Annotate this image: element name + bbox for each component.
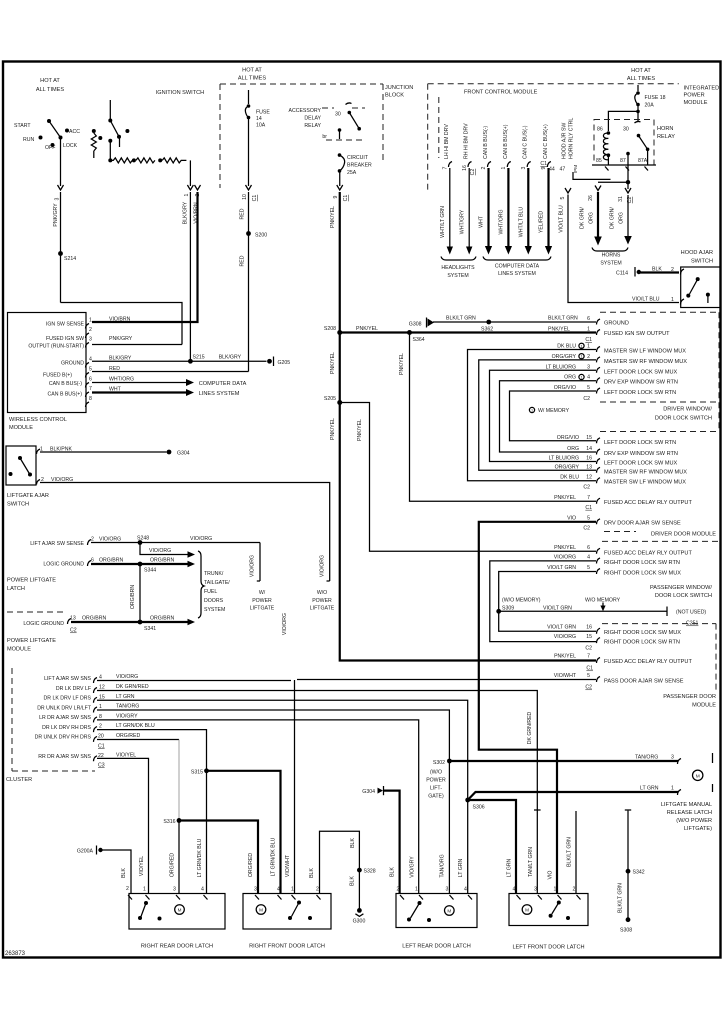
svg-text:ALL TIMES: ALL TIMES (36, 87, 65, 93)
wire VIO drv door ajar sw sense (479, 522, 596, 894)
svg-text:LT GRN/DK BLU: LT GRN/DK BLU (197, 838, 203, 877)
splice S248 (138, 540, 143, 545)
svg-text:M: M (178, 908, 182, 913)
svg-text:INTEGRATED: INTEGRATED (684, 86, 720, 92)
svg-text:S205: S205 (324, 396, 336, 402)
liftgate ajar switch pin 2 wire VIO/ORG (37, 480, 41, 485)
svg-text:DK GRN/RED: DK GRN/RED (116, 684, 149, 690)
svg-text:20A: 20A (645, 103, 655, 109)
svg-text:CAN C BUS(+): CAN C BUS(+) (543, 124, 549, 159)
svg-text:263873: 263873 (5, 951, 26, 957)
svg-text:BREAKER: BREAKER (347, 163, 372, 169)
wire VIO/YEL to right rear latch pin 1 (97, 758, 149, 893)
svg-text:4: 4 (587, 375, 590, 381)
svg-text:BLK: BLK (390, 867, 396, 877)
svg-text:LEFT DOOR LOCK SW MUX: LEFT DOOR LOCK SW MUX (604, 461, 678, 467)
wire WHT/LT GRN to headlights (449, 168, 451, 248)
wire WHT (CAN B-) (487, 168, 489, 247)
svg-text:ALL TIMES: ALL TIMES (627, 76, 656, 82)
splice S215 (188, 359, 193, 364)
svg-text:VIO/WHT: VIO/WHT (554, 673, 577, 679)
svg-text:14: 14 (256, 116, 262, 122)
svg-text:LR DR AJAR SW SNS: LR DR AJAR SW SNS (39, 715, 91, 721)
svg-text:C2: C2 (583, 526, 590, 532)
svg-text:FUSED ACC DELAY RLY OUTPUT: FUSED ACC DELAY RLY OUTPUT (604, 550, 692, 556)
wire DK GRN/ORG horn 2 (625, 188, 631, 193)
svg-text:ORG: ORG (619, 212, 625, 224)
wire PNK/YEL S208 to S364 and driver switch (340, 331, 596, 333)
svg-text:DOOR LOCK SWITCH: DOOR LOCK SWITCH (655, 593, 712, 599)
svg-text:DK GRN/: DK GRN/ (580, 207, 586, 229)
svg-text:10: 10 (242, 194, 248, 200)
splice S341 (138, 620, 143, 625)
IPM connector ticks (605, 167, 609, 171)
svg-text:VIO/LT GRN: VIO/LT GRN (547, 565, 576, 571)
svg-text:30: 30 (623, 127, 629, 133)
svg-text:RELAY: RELAY (657, 134, 675, 140)
svg-text:VIO/ORG: VIO/ORG (250, 555, 256, 577)
svg-text:26: 26 (588, 195, 594, 201)
svg-text:DOOR LOCK SWITCH: DOOR LOCK SWITCH (655, 416, 712, 422)
wire YEL/RED (CAN C+) (547, 168, 549, 247)
svg-text:FUSED B(+): FUSED B(+) (43, 373, 72, 379)
svg-text:FUSED ACC DELAY RLY OUTPUT: FUSED ACC DELAY RLY OUTPUT (604, 500, 692, 506)
svg-text:PNK/YEL: PNK/YEL (330, 418, 336, 440)
svg-text:BLK: BLK (652, 267, 662, 273)
svg-text:16: 16 (462, 165, 468, 171)
wire ORG/RED to S316 and right rear latch pin 3 (97, 739, 179, 741)
svg-text:14: 14 (586, 446, 592, 452)
svg-text:CIRCUIT: CIRCUIT (347, 155, 369, 161)
svg-text:BLK: BLK (350, 876, 356, 886)
svg-text:OUTPUT (RUN-START): OUTPUT (RUN-START) (28, 344, 84, 350)
svg-text:HORN RLY CTRL: HORN RLY CTRL (569, 118, 575, 159)
wire PNK/YEL S364 to driver door module pin7 (410, 333, 597, 502)
pin bracket FUSED IGN SW OUTPUT row (597, 330, 601, 336)
svg-text:ACCESSORY: ACCESSORY (289, 108, 322, 114)
svg-text:G300: G300 (353, 919, 366, 925)
svg-text:FUSE 18: FUSE 18 (645, 95, 666, 101)
svg-text:CAN B BUS(-): CAN B BUS(-) (49, 381, 82, 387)
svg-text:3: 3 (55, 197, 61, 200)
svg-text:VIO/WHT: VIO/WHT (285, 854, 291, 877)
svg-text:VIO/ORG: VIO/ORG (190, 536, 212, 542)
svg-text:C114: C114 (616, 271, 628, 277)
wire VIO/ORG S248 arrow to trunk system (140, 543, 189, 555)
svg-text:47: 47 (560, 167, 566, 173)
svg-text:CAN C BUS(-): CAN C BUS(-) (523, 125, 529, 159)
svg-text:DRV DOOR AJAR SW SENSE: DRV DOOR AJAR SW SENSE (604, 520, 681, 526)
svg-text:START: START (14, 123, 31, 129)
svg-text:LOGIC GROUND: LOGIC GROUND (23, 621, 64, 627)
svg-text:S342: S342 (633, 870, 645, 876)
svg-text:12: 12 (586, 475, 592, 481)
svg-text:20: 20 (98, 733, 104, 739)
svg-text:RELAY: RELAY (304, 123, 321, 129)
svg-text:CAN B BUS(-): CAN B BUS(-) (483, 126, 489, 159)
svg-text:MODULE: MODULE (692, 703, 716, 709)
note W/ MEMORY (529, 407, 534, 412)
svg-text:LINES SYSTEM: LINES SYSTEM (498, 271, 536, 277)
svg-text:LINES SYSTEM: LINES SYSTEM (199, 391, 240, 397)
svg-text:LT GRN: LT GRN (640, 786, 659, 792)
left rear door latch box (396, 894, 477, 928)
svg-text:7: 7 (587, 495, 590, 501)
nested wire U4 ORG (500, 381, 597, 452)
resistive zigzag wire to ignition connector (110, 158, 132, 163)
wire PNK/GRY from ignition to S214 (60, 138, 62, 186)
svg-text:POWER LIFTGATE: POWER LIFTGATE (7, 578, 56, 584)
wire VIO/GRY to left rear latch pin 1 (97, 720, 419, 894)
svg-text:DRIVER WINDOW/: DRIVER WINDOW/ (663, 407, 712, 413)
svg-text:ORG/BRN: ORG/BRN (150, 558, 174, 564)
svg-text:86: 86 (597, 127, 603, 133)
passenger window switch loop outer VIO/ORG (490, 561, 596, 642)
svg-text:ALL TIMES: ALL TIMES (238, 76, 267, 82)
svg-text:2: 2 (573, 887, 576, 893)
svg-text:S215: S215 (193, 355, 205, 361)
svg-text:C2: C2 (583, 396, 590, 402)
svg-text:ORG/RED: ORG/RED (248, 853, 254, 877)
svg-text:LIFTGATE): LIFTGATE) (684, 826, 712, 832)
svg-text:COMPUTER DATA: COMPUTER DATA (495, 264, 540, 270)
liftgate ajar switch pin 1 wire BLK/PNK to G304 (37, 449, 41, 454)
svg-text:ORG/VIO: ORG/VIO (557, 435, 579, 441)
svg-text:TAN/ORG: TAN/ORG (635, 755, 658, 761)
svg-text:br: br (322, 134, 327, 140)
svg-text:GATE): GATE) (428, 794, 444, 800)
right front latch motor M (256, 905, 266, 915)
svg-text:VIO/LT GRN: VIO/LT GRN (543, 606, 572, 612)
svg-text:C2: C2 (585, 646, 592, 652)
svg-text:S362: S362 (481, 327, 493, 333)
wire WHT/GRY to headlights (468, 168, 470, 248)
svg-text:VIO/LT GRN: VIO/LT GRN (547, 625, 576, 631)
passenger window switch loop inner VIO/LT GRN (499, 572, 596, 632)
svg-text:PNK/YEL: PNK/YEL (548, 327, 570, 333)
nested wire U3 LT BLU/ORG (490, 370, 597, 461)
svg-text:2: 2 (99, 724, 102, 730)
splice S316 (177, 818, 182, 823)
svg-text:C2: C2 (470, 169, 476, 176)
svg-text:LIFT AJAR SW SNS: LIFT AJAR SW SNS (44, 676, 91, 682)
svg-text:ORG/BRN: ORG/BRN (99, 558, 123, 564)
svg-text:PNK/GRY: PNK/GRY (109, 336, 133, 342)
svg-text:RUN: RUN (23, 137, 34, 143)
svg-text:FUSE: FUSE (256, 110, 270, 116)
splice S362 (486, 320, 491, 325)
wire DK GRN/ORG horn 1 (595, 186, 601, 191)
dashed separator power liftgate module (7, 611, 66, 613)
splice S302 w/o power liftgate (447, 759, 452, 764)
svg-text:(NOT USED): (NOT USED) (676, 610, 706, 616)
svg-text:2: 2 (481, 166, 487, 169)
svg-text:ORG: ORG (567, 446, 579, 452)
svg-text:S341: S341 (144, 626, 156, 632)
wire VIO/LT BLU to hood ajar switch (565, 188, 571, 193)
cluster dashed boundary (11, 668, 13, 771)
driver window door lock switch dashed boundary (600, 311, 719, 313)
svg-text:W/ MEMORY: W/ MEMORY (538, 408, 570, 414)
svg-text:1: 1 (531, 409, 533, 413)
svg-text:DR LK DRV LF DRS: DR LK DRV LF DRS (44, 696, 92, 702)
svg-text:2: 2 (316, 887, 319, 893)
svg-text:7: 7 (89, 386, 92, 392)
svg-text:LT GRN/DK BLU: LT GRN/DK BLU (271, 837, 277, 876)
svg-text:1: 1 (501, 166, 507, 169)
wire LT GRN to S306 and left rear latch pin 4 (97, 700, 468, 893)
svg-text:12: 12 (99, 685, 105, 691)
svg-text:5: 5 (587, 673, 590, 679)
left front latch switch (557, 901, 561, 905)
svg-text:MODULE: MODULE (9, 425, 33, 431)
svg-text:WHT: WHT (479, 215, 485, 228)
horns system bracket (592, 248, 628, 252)
svg-text:RIGHT DOOR LOCK SW RTN: RIGHT DOOR LOCK SW RTN (604, 560, 680, 566)
svg-text:HOOD AJR SW: HOOD AJR SW (562, 123, 568, 159)
svg-text:6: 6 (91, 558, 94, 564)
ground G205 (267, 359, 272, 364)
svg-text:2: 2 (587, 354, 590, 360)
svg-text:C1: C1 (585, 337, 592, 343)
svg-text:1: 1 (580, 376, 582, 380)
horn relay switch (635, 121, 641, 123)
svg-text:WIRELESS CONTROL: WIRELESS CONTROL (9, 417, 67, 423)
svg-text:VIO/BRN: VIO/BRN (109, 317, 131, 323)
svg-text:25A: 25A (347, 170, 357, 176)
right rear latch motor M (175, 905, 185, 915)
svg-text:COMPUTER DATA: COMPUTER DATA (199, 381, 247, 387)
right front door latch box (243, 894, 331, 930)
svg-text:VIO/ORG: VIO/ORG (282, 613, 288, 635)
svg-text:S309: S309 (502, 606, 514, 612)
svg-text:LIFT-: LIFT- (430, 786, 442, 792)
svg-text:M: M (259, 908, 263, 913)
wire TAN/ORG S302 to liftgate release latch pin 3 (449, 760, 678, 762)
svg-text:C2: C2 (70, 628, 77, 634)
svg-text:LT GRN: LT GRN (458, 858, 464, 877)
svg-text:30: 30 (335, 112, 341, 118)
svg-text:(W/O: (W/O (430, 770, 442, 776)
svg-text:WHT/LT BLU: WHT/LT BLU (519, 207, 525, 238)
svg-text:VIO/YEL: VIO/YEL (116, 752, 136, 758)
liftgate ajar switch box (6, 446, 36, 485)
svg-text:4: 4 (99, 675, 102, 681)
svg-text:LEFT DOOR LOCK SW RTN: LEFT DOOR LOCK SW RTN (604, 440, 676, 446)
svg-text:LIFTGATE AJAR: LIFTGATE AJAR (7, 493, 49, 499)
svg-text:ORG: ORG (564, 375, 576, 381)
svg-text:SYSTEM: SYSTEM (600, 261, 621, 267)
svg-text:RIGHT DOOR LOCK SW MUX: RIGHT DOOR LOCK SW MUX (604, 571, 681, 577)
wire BLK/LT GRN ground row (433, 321, 596, 323)
svg-text:FUSED IGN SW: FUSED IGN SW (46, 336, 84, 342)
svg-text:1: 1 (99, 704, 102, 710)
svg-text:VIO: VIO (548, 871, 554, 880)
svg-text:LT BLU/ORG: LT BLU/ORG (549, 456, 579, 462)
splice S306 (465, 798, 470, 803)
svg-text:1: 1 (580, 344, 582, 348)
splice S214 (58, 251, 63, 256)
wire LT GRN S306 to liftgate release latch pin 1 (468, 792, 678, 800)
svg-text:VIO/ORG: VIO/ORG (320, 555, 326, 577)
pin bracket GROUND row (597, 319, 601, 325)
svg-text:PNK/YEL: PNK/YEL (554, 654, 576, 660)
svg-text:DR LK DRV RH DRS: DR LK DRV RH DRS (42, 725, 91, 731)
junction block dashed box (220, 83, 383, 85)
svg-text:RR DR AJAR SW SNS: RR DR AJAR SW SNS (38, 754, 91, 760)
svg-text:RED: RED (240, 255, 246, 266)
svg-text:LT GRN: LT GRN (507, 858, 513, 877)
svg-text:VIO/ORG: VIO/ORG (149, 548, 171, 554)
svg-text:3: 3 (254, 887, 257, 893)
svg-text:13: 13 (586, 464, 592, 470)
svg-text:BLK/GRY: BLK/GRY (109, 356, 132, 362)
circuit breaker 25A (338, 153, 342, 157)
svg-text:ACC: ACC (69, 129, 80, 135)
svg-text:PNK/YEL: PNK/YEL (356, 326, 378, 332)
FCM connector brackets (449, 162, 453, 168)
svg-text:S214: S214 (64, 256, 76, 262)
svg-text:WHT/GRY: WHT/GRY (460, 209, 466, 234)
wire VIO/WHT to right front door latch pin 1 (294, 680, 296, 894)
svg-text:RED: RED (240, 208, 246, 219)
svg-text:C2: C2 (583, 485, 590, 491)
svg-text:MASTER SW RF WINDOW MUX: MASTER SW RF WINDOW MUX (604, 469, 687, 475)
svg-text:BLK: BLK (309, 868, 315, 878)
label DRIVER DOOR MODULE (604, 531, 636, 533)
svg-text:3: 3 (173, 887, 176, 893)
splice S328 (357, 868, 362, 873)
svg-text:DR UNLK DRV RH DRS: DR UNLK DRV RH DRS (35, 735, 92, 741)
svg-text:LEFT DOOR LOCK SW RTN: LEFT DOOR LOCK SW RTN (604, 390, 676, 396)
svg-text:BLK/GRY: BLK/GRY (219, 355, 242, 361)
svg-text:POWER: POWER (312, 598, 332, 604)
svg-text:M: M (525, 908, 529, 913)
svg-text:3: 3 (671, 755, 674, 761)
svg-text:LH HI BM DRV: LH HI BM DRV (444, 124, 450, 159)
wire PNK/YEL main vertical (340, 192, 596, 661)
svg-text:C1: C1 (540, 161, 547, 167)
svg-text:VIO/GRY: VIO/GRY (410, 856, 416, 878)
svg-text:BLK: BLK (121, 868, 127, 878)
svg-text:2: 2 (89, 327, 92, 333)
svg-text:M: M (447, 909, 451, 914)
svg-text:3: 3 (89, 337, 92, 343)
svg-text:MASTER SW LF WINDOW MUX: MASTER SW LF WINDOW MUX (604, 349, 686, 355)
svg-text:JUNCTION: JUNCTION (385, 85, 413, 91)
svg-text:5: 5 (587, 515, 590, 521)
svg-text:3: 3 (521, 166, 527, 169)
svg-text:PNK/YEL: PNK/YEL (330, 352, 336, 374)
svg-text:POWER: POWER (426, 778, 446, 784)
ground G304 (upper) (167, 450, 172, 455)
splice S364 (407, 330, 412, 335)
splice S200 (246, 231, 251, 236)
svg-text:1: 1 (291, 887, 294, 893)
svg-text:13: 13 (70, 616, 76, 622)
svg-text:DK BLU: DK BLU (557, 344, 576, 350)
svg-text:16: 16 (586, 625, 592, 631)
svg-text:1: 1 (587, 344, 590, 350)
svg-text:4: 4 (201, 887, 204, 893)
svg-text:VIO/ORG: VIO/ORG (99, 537, 121, 543)
svg-text:DRIVER DOOR MODULE: DRIVER DOOR MODULE (651, 532, 716, 538)
svg-text:4: 4 (89, 357, 92, 363)
svg-text:CLUSTER: CLUSTER (6, 777, 32, 783)
svg-text:C2: C2 (585, 685, 592, 691)
svg-text:BLK/LT GRN: BLK/LT GRN (618, 883, 624, 913)
svg-text:G308: G308 (409, 322, 422, 328)
svg-text:8: 8 (99, 714, 102, 720)
svg-text:HEADLIGHTS: HEADLIGHTS (441, 265, 475, 271)
svg-text:3: 3 (534, 887, 537, 893)
svg-text:IGN SW SENSE: IGN SW SENSE (46, 322, 85, 328)
svg-text:SYSTEM: SYSTEM (447, 273, 468, 279)
svg-text:SYSTEM: SYSTEM (204, 607, 225, 613)
svg-text:BLK/LT GRN: BLK/LT GRN (548, 316, 578, 322)
svg-text:VIO/ORG: VIO/ORG (116, 674, 138, 680)
svg-text:DK GRN/: DK GRN/ (610, 207, 616, 229)
svg-text:BLK: BLK (350, 838, 356, 848)
svg-text:5: 5 (587, 565, 590, 571)
svg-text:PNK/YEL: PNK/YEL (554, 495, 576, 501)
svg-text:9: 9 (333, 195, 339, 198)
svg-text:RIGHT FRONT DOOR LATCH: RIGHT FRONT DOOR LATCH (249, 944, 325, 950)
svg-text:M: M (696, 773, 700, 779)
svg-text:15: 15 (99, 694, 105, 700)
wire WHT/ORG (CAN B+) (507, 168, 509, 247)
svg-text:IGNITION SWITCH: IGNITION SWITCH (156, 90, 204, 96)
svg-text:HOOD AJAR: HOOD AJAR (681, 250, 713, 256)
wire LT GRN S306 to left front latch pin 4 (468, 800, 516, 894)
svg-text:2: 2 (126, 886, 129, 892)
svg-text:LIFTGATE MANUAL: LIFTGATE MANUAL (661, 802, 712, 808)
svg-text:RIGHT REAR DOOR LATCH: RIGHT REAR DOOR LATCH (141, 944, 213, 950)
svg-text:PASSENGER DOOR: PASSENGER DOOR (663, 694, 716, 700)
horn relay coil (607, 131, 611, 135)
svg-text:VIO/GRY: VIO/GRY (116, 713, 138, 719)
svg-text:87: 87 (620, 158, 626, 164)
computer data lines bracket (483, 257, 551, 261)
svg-text:G200A: G200A (77, 849, 94, 855)
svg-text:S248: S248 (137, 536, 149, 542)
svg-text:ORG/BRN: ORG/BRN (82, 616, 106, 622)
svg-text:FUEL: FUEL (204, 589, 217, 595)
svg-text:MODULE: MODULE (684, 100, 708, 106)
svg-text:YEL/RED: YEL/RED (539, 211, 545, 233)
right front latch switch (297, 901, 301, 905)
svg-text:5: 5 (560, 196, 566, 199)
left rear latch switch (418, 901, 422, 905)
left rear latch motor M (445, 906, 455, 916)
svg-text:RIGHT DOOR LOCK SW MUX: RIGHT DOOR LOCK SW MUX (604, 630, 681, 636)
right rear latch switch (144, 901, 148, 905)
svg-text:RED: RED (109, 366, 120, 372)
svg-text:PASSENGER WINDOW/: PASSENGER WINDOW/ (650, 585, 712, 591)
svg-text:G304: G304 (177, 451, 190, 457)
svg-text:DK BLU: DK BLU (560, 475, 579, 481)
svg-text:TAN/ORG: TAN/ORG (440, 854, 446, 877)
horn relay dashed box (594, 120, 654, 166)
svg-text:TAILGATE/: TAILGATE/ (204, 580, 230, 586)
wire VIO/ORG S248 to w/ power liftgate (259, 543, 261, 582)
svg-text:CAN B BUS(+): CAN B BUS(+) (48, 391, 83, 397)
svg-text:HOT AT: HOT AT (40, 78, 60, 84)
wire VIO/BRN ignition pin 2 to WCM pin 1 (92, 192, 198, 322)
svg-text:1: 1 (587, 327, 590, 333)
svg-text:CAN B BUS(+): CAN B BUS(+) (503, 124, 509, 159)
svg-text:FUSED IGN SW OUTPUT: FUSED IGN SW OUTPUT (604, 331, 670, 337)
